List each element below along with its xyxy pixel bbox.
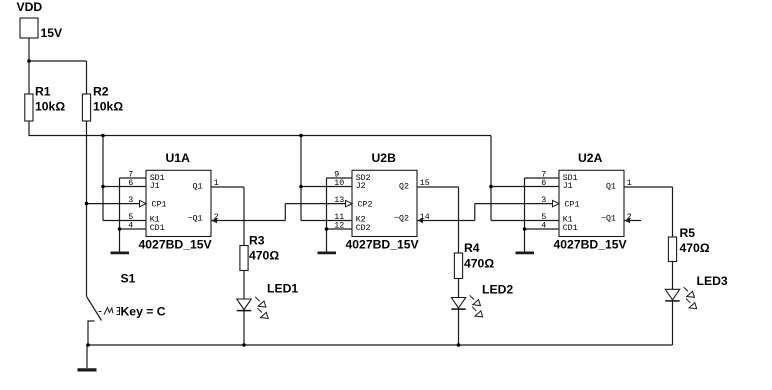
wire U2B J2 xyxy=(301,186,352,188)
svg-text:U1A: U1A xyxy=(166,151,191,165)
node switch ground rail xyxy=(86,343,90,347)
wire U1A CP1 clock xyxy=(87,203,140,205)
svg-text:470Ω: 470Ω xyxy=(680,241,710,255)
svg-text:1: 1 xyxy=(214,179,219,188)
wire JK pullup rail xyxy=(29,135,492,137)
LED1 xyxy=(237,282,299,319)
svg-text:LED2: LED2 xyxy=(482,283,513,297)
U2A ~Q1 pin arrow xyxy=(625,218,631,224)
svg-text:10kΩ: 10kΩ xyxy=(93,100,123,114)
wire U2A J1 xyxy=(491,186,559,188)
svg-text:12: 12 xyxy=(334,222,344,231)
svg-text:U2B: U2B xyxy=(372,151,397,165)
svg-text:S1: S1 xyxy=(121,271,136,285)
resistor R5 xyxy=(668,226,709,262)
svg-text:R1: R1 xyxy=(35,85,51,99)
op-amp U2B flip-flop box xyxy=(334,151,429,251)
node LED2 ground rail xyxy=(457,343,461,347)
svg-text:2: 2 xyxy=(214,213,219,222)
LED2 xyxy=(451,283,513,317)
wire U2A CD1 xyxy=(525,228,560,230)
svg-text:4027BD_15V: 4027BD_15V xyxy=(346,237,420,251)
wire U1A ~Q1 to U2B CP2 xyxy=(211,220,285,222)
LED3 light arrows xyxy=(684,287,697,309)
svg-text:1: 1 xyxy=(627,179,632,188)
svg-text:14: 14 xyxy=(420,213,430,222)
wire U2B K2 xyxy=(301,220,352,222)
svg-text:4027BD_15V: 4027BD_15V xyxy=(554,237,628,251)
svg-text:CP1: CP1 xyxy=(565,201,580,210)
svg-text:R2: R2 xyxy=(93,85,109,99)
wire LED3 to ground rail xyxy=(672,301,674,345)
svg-text:~Q2: ~Q2 xyxy=(394,215,409,224)
svg-text:6: 6 xyxy=(541,179,546,188)
switch S1 xyxy=(99,271,166,318)
U1A clock triangle xyxy=(140,200,147,206)
wire U2B JK tie vertical xyxy=(300,136,302,221)
svg-text:Q1: Q1 xyxy=(606,183,616,192)
LED3 xyxy=(665,274,728,309)
node LED1 ground rail xyxy=(242,343,246,347)
svg-text:CD1: CD1 xyxy=(150,224,165,233)
resistor R4 xyxy=(454,241,494,279)
S1 key dashes xyxy=(99,308,120,315)
switch S1 blade xyxy=(87,296,102,320)
wire U2A Q1 to R5 xyxy=(624,186,673,188)
node clock CP1 xyxy=(85,202,89,206)
svg-text:10: 10 xyxy=(334,179,344,188)
U2B ~Q2 pin arrow xyxy=(418,218,424,224)
resistor R2 xyxy=(82,85,123,122)
wire U2B Q2 to R4 xyxy=(417,186,459,188)
wire U1A J1 xyxy=(103,186,146,188)
op-amp U1A flip-flop box xyxy=(128,151,219,251)
resistor R1 xyxy=(25,85,66,122)
svg-text:LED3: LED3 xyxy=(697,274,728,288)
resistor R3 xyxy=(240,233,279,270)
svg-text:15V: 15V xyxy=(41,26,64,40)
wire rail corner down to U2A J xyxy=(490,136,492,188)
wire R2 bottom to switch S1 xyxy=(86,121,88,296)
wire U2A SD-CD tie vertical xyxy=(524,178,526,252)
wire R4 to LED2 xyxy=(458,279,460,298)
svg-text:K1: K1 xyxy=(150,215,160,224)
wire U1A K1 xyxy=(103,220,146,222)
wire U2A K1 xyxy=(491,220,559,222)
node U1A J1 xyxy=(101,185,105,189)
wire U2B SD-CD tie vertical xyxy=(326,178,328,252)
svg-text:470Ω: 470Ω xyxy=(249,249,279,263)
node rail U2B tie xyxy=(299,134,303,138)
wire U2A ~Q1 stub xyxy=(624,220,641,222)
wire U2B ~Q2 to U2A CP1 xyxy=(417,220,475,222)
svg-text:2: 2 xyxy=(627,213,632,222)
wire VDD node to R2 xyxy=(29,60,87,62)
svg-text:K1: K1 xyxy=(563,215,573,224)
svg-text:15: 15 xyxy=(420,179,430,188)
svg-text:CD2: CD2 xyxy=(356,224,371,233)
svg-text:13: 13 xyxy=(334,196,344,205)
svg-text:~Q1: ~Q1 xyxy=(188,215,203,224)
op-amp U2A flip-flop box xyxy=(541,151,632,251)
wire LED1 to ground rail xyxy=(243,311,245,345)
wire U2B SD2 xyxy=(327,177,353,179)
ground wire below switch xyxy=(86,345,88,368)
svg-text:Q1: Q1 xyxy=(193,183,203,192)
svg-text:Key = C: Key = C xyxy=(121,305,166,319)
ground under U1A xyxy=(111,251,130,254)
svg-text:~Q1: ~Q1 xyxy=(601,215,616,224)
svg-text:Q2: Q2 xyxy=(399,183,409,192)
svg-text:CP1: CP1 xyxy=(152,201,167,210)
svg-text:R3: R3 xyxy=(249,233,265,247)
svg-text:3: 3 xyxy=(541,196,546,205)
LED2 light arrows xyxy=(470,295,483,317)
LED1 light arrows xyxy=(255,297,268,319)
VDD supply symbol xyxy=(17,0,64,40)
wire R3 to LED1 xyxy=(243,271,245,300)
svg-text:CP2: CP2 xyxy=(358,201,373,210)
wire U1A JK tie vertical xyxy=(102,136,104,221)
wire LED2 to ground rail xyxy=(458,309,460,345)
U2A clock triangle xyxy=(553,200,560,206)
svg-text:J1: J1 xyxy=(563,182,573,191)
node rail U1A tie xyxy=(101,134,105,138)
svg-text:R5: R5 xyxy=(680,226,696,240)
wire U1A SD-CD tie vertical xyxy=(119,178,121,252)
svg-text:R4: R4 xyxy=(464,241,480,255)
node U2B J2 xyxy=(299,185,303,189)
ground under U2B xyxy=(318,251,337,254)
svg-text:4: 4 xyxy=(541,222,546,231)
ground bottom left xyxy=(78,368,97,371)
wire U1A SD1 xyxy=(120,177,147,179)
node U1A CD1 xyxy=(118,227,122,231)
wire U2A JK tie vertical xyxy=(490,187,492,221)
wire U2B CD2 xyxy=(327,228,353,230)
wire U1A Q1 to R3 xyxy=(211,186,244,188)
U2B clock triangle xyxy=(346,200,353,206)
node VDD junction xyxy=(27,59,31,63)
svg-text:J2: J2 xyxy=(356,182,366,191)
svg-text:470Ω: 470Ω xyxy=(464,256,494,270)
svg-text:4: 4 xyxy=(128,222,133,231)
wire U2A SD1 xyxy=(525,177,560,179)
svg-text:LED1: LED1 xyxy=(267,282,298,296)
wire R5 to LED3 xyxy=(672,262,674,290)
wire R1 bottom xyxy=(28,121,30,136)
power VDD wire xyxy=(28,38,30,94)
svg-text:U2A: U2A xyxy=(578,151,603,165)
node U2A CD1 xyxy=(523,227,527,231)
svg-text:4027BD_15V: 4027BD_15V xyxy=(139,237,213,251)
wire to R2 top xyxy=(86,61,88,94)
node U2B CD2 xyxy=(325,227,329,231)
svg-text:J1: J1 xyxy=(150,182,160,191)
U1A ~Q1 pin arrow xyxy=(212,218,218,224)
wire bottom ground rail xyxy=(87,344,673,346)
switch S1 bottom terminal stub xyxy=(88,321,95,345)
wire U1A CD1 xyxy=(120,228,147,230)
node U2A J1 xyxy=(489,185,493,189)
ground under U2A xyxy=(516,251,535,254)
svg-text:K2: K2 xyxy=(356,215,366,224)
svg-text:CD1: CD1 xyxy=(563,224,578,233)
svg-text:VDD: VDD xyxy=(17,0,43,14)
svg-text:3: 3 xyxy=(128,196,133,205)
svg-text:10kΩ: 10kΩ xyxy=(35,100,65,114)
svg-text:6: 6 xyxy=(128,179,133,188)
